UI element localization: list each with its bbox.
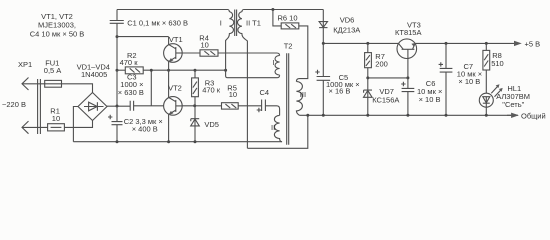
wire: top mains to fuse — [22, 83, 45, 85]
svg-text:VT2: VT2 — [168, 84, 182, 93]
legend text VT1, VT2 MJE13003 C4 — [30, 12, 85, 38]
svg-text:+5 В: +5 В — [525, 40, 541, 49]
node: C5 top — [322, 42, 325, 45]
primary negative rail — [73, 141, 282, 143]
midpoint node VT1e-VT2c — [167, 69, 170, 72]
svg-text:XP1: XP1 — [18, 60, 32, 69]
svg-text:10: 10 — [52, 114, 60, 123]
transistor VT2 — [164, 70, 183, 142]
node: R6 branch on top rail — [271, 8, 274, 11]
wire: VT1 base to R4 — [182, 52, 200, 54]
wire: node to VT3 base — [368, 77, 408, 79]
svg-text:"Сеть": "Сеть" — [502, 100, 524, 109]
svg-text:× 16 В: × 16 В — [329, 87, 351, 96]
capacitor C3 — [130, 101, 163, 111]
wire: fuse to bridge top — [62, 84, 93, 93]
connector XP1 double line — [38, 79, 41, 134]
wire: R1 to bridge bottom — [64, 121, 92, 128]
diode VD6 — [319, 10, 327, 44]
node: VT2 emitter on rail — [167, 140, 170, 143]
svg-text:II T1: II T1 — [246, 18, 261, 27]
capacitor C2 — [112, 106, 123, 142]
svg-text:~220 В: ~220 В — [2, 100, 26, 109]
svg-text:I: I — [220, 18, 222, 27]
transformer T2 winding I — [275, 56, 280, 76]
wire: VT2 base to R5 — [182, 105, 221, 107]
resistor R7 — [365, 43, 372, 78]
wire: jog midpoint to T2 winding I bottom — [226, 70, 280, 78]
capacitor C1 — [110, 10, 124, 37]
node: C1 bottom junction — [116, 35, 119, 38]
svg-text:0,5 А: 0,5 А — [44, 66, 62, 75]
resistor R4 — [200, 50, 218, 56]
rectified rail to VT3 — [323, 42, 398, 44]
node: R7 top — [366, 42, 369, 45]
node: C2 bottom on rail — [116, 140, 119, 143]
svg-text:1N4005: 1N4005 — [81, 70, 107, 79]
capacitor C4 — [262, 100, 280, 116]
svg-text:× 630 В: × 630 В — [118, 88, 144, 97]
output arrow common — [507, 114, 511, 116]
polarity plus of C2 — [108, 115, 112, 119]
polarity plus of C4 — [257, 108, 261, 112]
svg-text:× 400 В: × 400 В — [132, 124, 158, 133]
svg-text:× 10 В: × 10 В — [458, 77, 480, 86]
wire: base node to VD5 — [194, 106, 196, 126]
wire: top rail to R6 — [273, 10, 281, 26]
svg-text:I: I — [273, 58, 275, 67]
wire: C3 branch vertical — [150, 70, 152, 106]
node: R8 top — [485, 42, 488, 45]
svg-text:MJE13003,: MJE13003, — [38, 20, 76, 29]
polarity plus of C6 — [401, 82, 405, 86]
transformer T2 winding III — [296, 82, 302, 116]
wire: plus column down to C3 wire — [116, 70, 118, 106]
svg-text:510: 510 — [491, 59, 504, 68]
output arrow +5V — [514, 41, 522, 46]
svg-text:КД213А: КД213А — [333, 25, 360, 34]
wire: T1 winding II bottom to secondary rail riser — [247, 115, 307, 148]
bridge rectifier VD1-VD4 — [78, 93, 107, 121]
wire: bottom mains to R1 — [22, 126, 48, 128]
svg-text:II: II — [271, 123, 275, 132]
transistor VT3 — [397, 39, 417, 78]
resistor R3 — [192, 78, 199, 97]
connector XP1 bottom pin arrow — [22, 121, 29, 134]
node: C6 bottom on rail — [406, 114, 409, 117]
polarity plus of C7 — [439, 62, 443, 66]
wire: R5 to C4 — [238, 105, 261, 107]
node: C7 top — [445, 42, 448, 45]
svg-text:R6 10: R6 10 — [278, 13, 298, 22]
resistor R8 — [483, 43, 490, 93]
transformer T1 core — [235, 10, 237, 37]
svg-text:C4 10 мк × 50 В: C4 10 мк × 50 В — [30, 29, 85, 38]
wire: R6 to T2 winding III top — [296, 26, 307, 82]
capacitor C6 — [402, 78, 415, 115]
node: VD7 anode on rail — [366, 114, 369, 117]
wire: node to VT1 collector — [117, 36, 169, 38]
top rail right — [243, 9, 323, 11]
svg-text:VD5: VD5 — [204, 120, 219, 129]
wire: bridge minus to primary rail — [73, 107, 78, 142]
resistor R6 — [281, 23, 299, 29]
node: C3 branch top — [150, 69, 153, 72]
svg-text:10: 10 — [229, 90, 237, 99]
wire: R3 bottom to base node — [194, 97, 196, 106]
node: riser on common rail — [306, 114, 309, 117]
node: VT2 base / R3 / VD5 — [193, 104, 196, 107]
svg-text:200: 200 — [375, 60, 388, 69]
resistor R1 — [48, 124, 65, 131]
resistor R5 — [222, 103, 239, 109]
svg-text:10: 10 — [201, 41, 209, 50]
wire: midpoint R3 top — [194, 70, 196, 78]
transformer T2 winding II — [274, 115, 282, 141]
node: C5 bottom on rail — [322, 114, 325, 117]
wire: bridge plus output — [107, 105, 130, 107]
node: R2 left junction — [116, 69, 119, 72]
transistor VT1 — [164, 37, 183, 71]
svg-text:VT1: VT1 — [169, 35, 183, 44]
node: HL1 cathode on rail — [485, 114, 488, 117]
LED HL1 — [479, 84, 502, 115]
node: T1 winding I bottom junction — [224, 69, 227, 72]
node: R3 top on midpoint wire — [194, 69, 197, 72]
node: VT3 base C6 junction — [406, 76, 409, 79]
node: VD5 anode on rail — [194, 140, 197, 143]
node: C7 bottom on rail — [445, 114, 448, 117]
capacitor C7 — [440, 43, 453, 115]
zener diode VD7 — [364, 78, 373, 115]
svg-text:Общий: Общий — [521, 111, 546, 120]
secondary common rail — [299, 114, 518, 116]
svg-text:C1 0,1 мк × 630 В: C1 0,1 мк × 630 В — [127, 18, 188, 27]
top rail left — [117, 9, 228, 11]
wire: plus column C1 to R2 — [116, 37, 118, 71]
svg-text:III: III — [300, 90, 306, 99]
zener diode VD5 — [191, 119, 200, 142]
node: C2 top junction — [116, 105, 119, 108]
capacitor C5 — [317, 43, 331, 115]
fuse FU1 — [45, 80, 62, 87]
svg-text:VD6: VD6 — [340, 15, 355, 24]
+5V rail — [415, 42, 515, 44]
svg-text:C4: C4 — [260, 88, 270, 97]
resistor R2 — [117, 67, 169, 74]
polarity plus of C5 — [315, 70, 319, 74]
transformer T1 winding I — [226, 10, 234, 71]
svg-text:T2: T2 — [284, 41, 293, 50]
transformer T2 core — [287, 53, 289, 145]
transformer T1 winding II — [237, 10, 247, 149]
svg-text:× 10 В: × 10 В — [419, 95, 441, 104]
wire: R4 to T2 winding I top — [218, 53, 280, 56]
wire: midpoint to T1 primary bottom — [169, 69, 226, 71]
connector XP1 top pin arrow — [22, 78, 29, 91]
svg-text:470 к: 470 к — [202, 86, 221, 95]
node: R7 VD7 VT3 base — [366, 76, 369, 79]
svg-text:КТ815А: КТ815А — [395, 28, 421, 37]
svg-text:470 к: 470 к — [120, 58, 139, 67]
svg-text:КС156А: КС156А — [372, 95, 399, 104]
